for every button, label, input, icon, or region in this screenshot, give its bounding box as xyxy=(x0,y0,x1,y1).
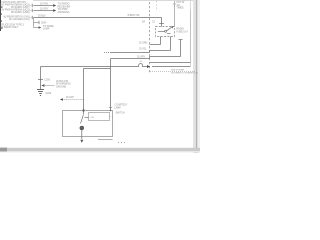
junction node at lamp wire xyxy=(110,110,112,112)
page bottom scan band xyxy=(0,148,200,153)
svg-text:S234: S234 xyxy=(41,22,47,24)
main wire L5 with loop and arrow to connector xyxy=(41,64,191,68)
splice branch node S234 xyxy=(34,18,40,28)
tie dash wire 2 xyxy=(30,10,34,12)
fuse block boundary dashed left xyxy=(156,1,158,11)
svg-text:TIMES: TIMES xyxy=(177,8,184,10)
svg-text:20 GRY: 20 GRY xyxy=(40,8,49,11)
wire drop to switch xyxy=(83,69,85,111)
ladder wire L3 xyxy=(111,40,183,59)
wire gauge callout arrow xyxy=(41,84,54,87)
branch arrow A3 xyxy=(34,26,42,28)
svg-text:20 TAN: 20 TAN xyxy=(40,2,48,5)
dotted power distribution lead xyxy=(150,71,196,73)
svg-text:LAMP: LAMP xyxy=(43,27,50,30)
page right edge shading xyxy=(193,0,200,153)
switch output arrow xyxy=(80,140,83,143)
box base line xyxy=(98,139,113,141)
wire W2 (second radio feed) xyxy=(32,9,54,12)
fuse output wire drop 2 xyxy=(170,37,172,51)
connector C100 dashed line xyxy=(149,2,151,73)
fuse block boundary vertical xyxy=(174,1,176,27)
svg-text:ON: ON xyxy=(91,117,95,119)
svg-text:W/ RADIO ONLY: W/ RADIO ONLY xyxy=(0,26,19,29)
junction node at switch xyxy=(82,109,84,111)
wire W3 (long feed to fuse block) xyxy=(32,16,161,19)
svg-text:ALL: ALL xyxy=(177,4,182,7)
svg-text:RADIO: RADIO xyxy=(177,28,184,31)
arrow A1 to radio xyxy=(53,4,56,7)
svg-text:20 BLK 150: 20 BLK 150 xyxy=(56,81,69,83)
dotted courtesy feed with arrow xyxy=(60,98,84,101)
svg-text:W/ RADIO (UM6): W/ RADIO (UM6) xyxy=(11,11,30,14)
wire W1 (top radio feed) xyxy=(32,4,54,7)
svg-text:20 ORN: 20 ORN xyxy=(139,43,148,45)
svg-text:C200: C200 xyxy=(45,79,51,81)
svg-text:DISTRIBUTION PAGE 8-10: DISTRIBUTION PAGE 8-10 xyxy=(171,71,199,74)
svg-text:20 GRY: 20 GRY xyxy=(66,97,75,99)
stray dots note xyxy=(118,141,125,144)
svg-text:20 YEL: 20 YEL xyxy=(139,49,147,51)
arrow A2 to antenna xyxy=(53,9,56,12)
tie dash wire 1 xyxy=(30,5,34,7)
page border right vertical xyxy=(190,1,192,66)
fuse output wire drop 1 xyxy=(160,37,162,45)
ground branch wire xyxy=(38,67,43,90)
cross wire to switch feed xyxy=(84,68,111,70)
svg-text:LAMP: LAMP xyxy=(115,106,122,109)
tie dash wire 3 xyxy=(30,17,34,19)
page top border xyxy=(33,0,196,2)
fuse F1 element xyxy=(158,26,174,34)
svg-text:FUSE 10 A: FUSE 10 A xyxy=(177,30,189,33)
svg-text:G200: G200 xyxy=(46,93,52,95)
dimmer switch box xyxy=(63,111,113,137)
ladder wire L2 xyxy=(104,51,171,53)
svg-text:20 BLK: 20 BLK xyxy=(38,14,46,17)
fuse F1 box xyxy=(156,27,175,37)
ground G200 symbol xyxy=(37,90,44,96)
switch SW1 xyxy=(80,111,84,140)
page left scan seam xyxy=(0,0,3,31)
resistor module box xyxy=(89,113,110,121)
svg-text:W/ GAUGES (U16): W/ GAUGES (U16) xyxy=(9,18,30,21)
svg-text:SEE POWER: SEE POWER xyxy=(171,70,185,72)
svg-text:SWITCH: SWITCH xyxy=(116,112,125,114)
svg-text:COURTESY: COURTESY xyxy=(115,105,128,107)
svg-text:GROUND: GROUND xyxy=(56,86,67,88)
wire drop into fuse block xyxy=(159,18,164,27)
svg-text:20 GRY: 20 GRY xyxy=(137,57,146,59)
svg-text:ANTENNA: ANTENNA xyxy=(58,11,70,14)
svg-text:.5 BRN 740: .5 BRN 740 xyxy=(127,14,140,17)
ladder wire L4 xyxy=(150,10,191,63)
svg-text:I/P HARNESS: I/P HARNESS xyxy=(56,83,71,86)
svg-text:HOT AT: HOT AT xyxy=(177,1,186,4)
wire module to lamp drop xyxy=(110,116,111,118)
boundary tick xyxy=(173,3,176,5)
wire switch to module xyxy=(85,117,89,119)
ladder wire L1 xyxy=(150,44,161,46)
wire drop from fuse row xyxy=(110,59,112,111)
